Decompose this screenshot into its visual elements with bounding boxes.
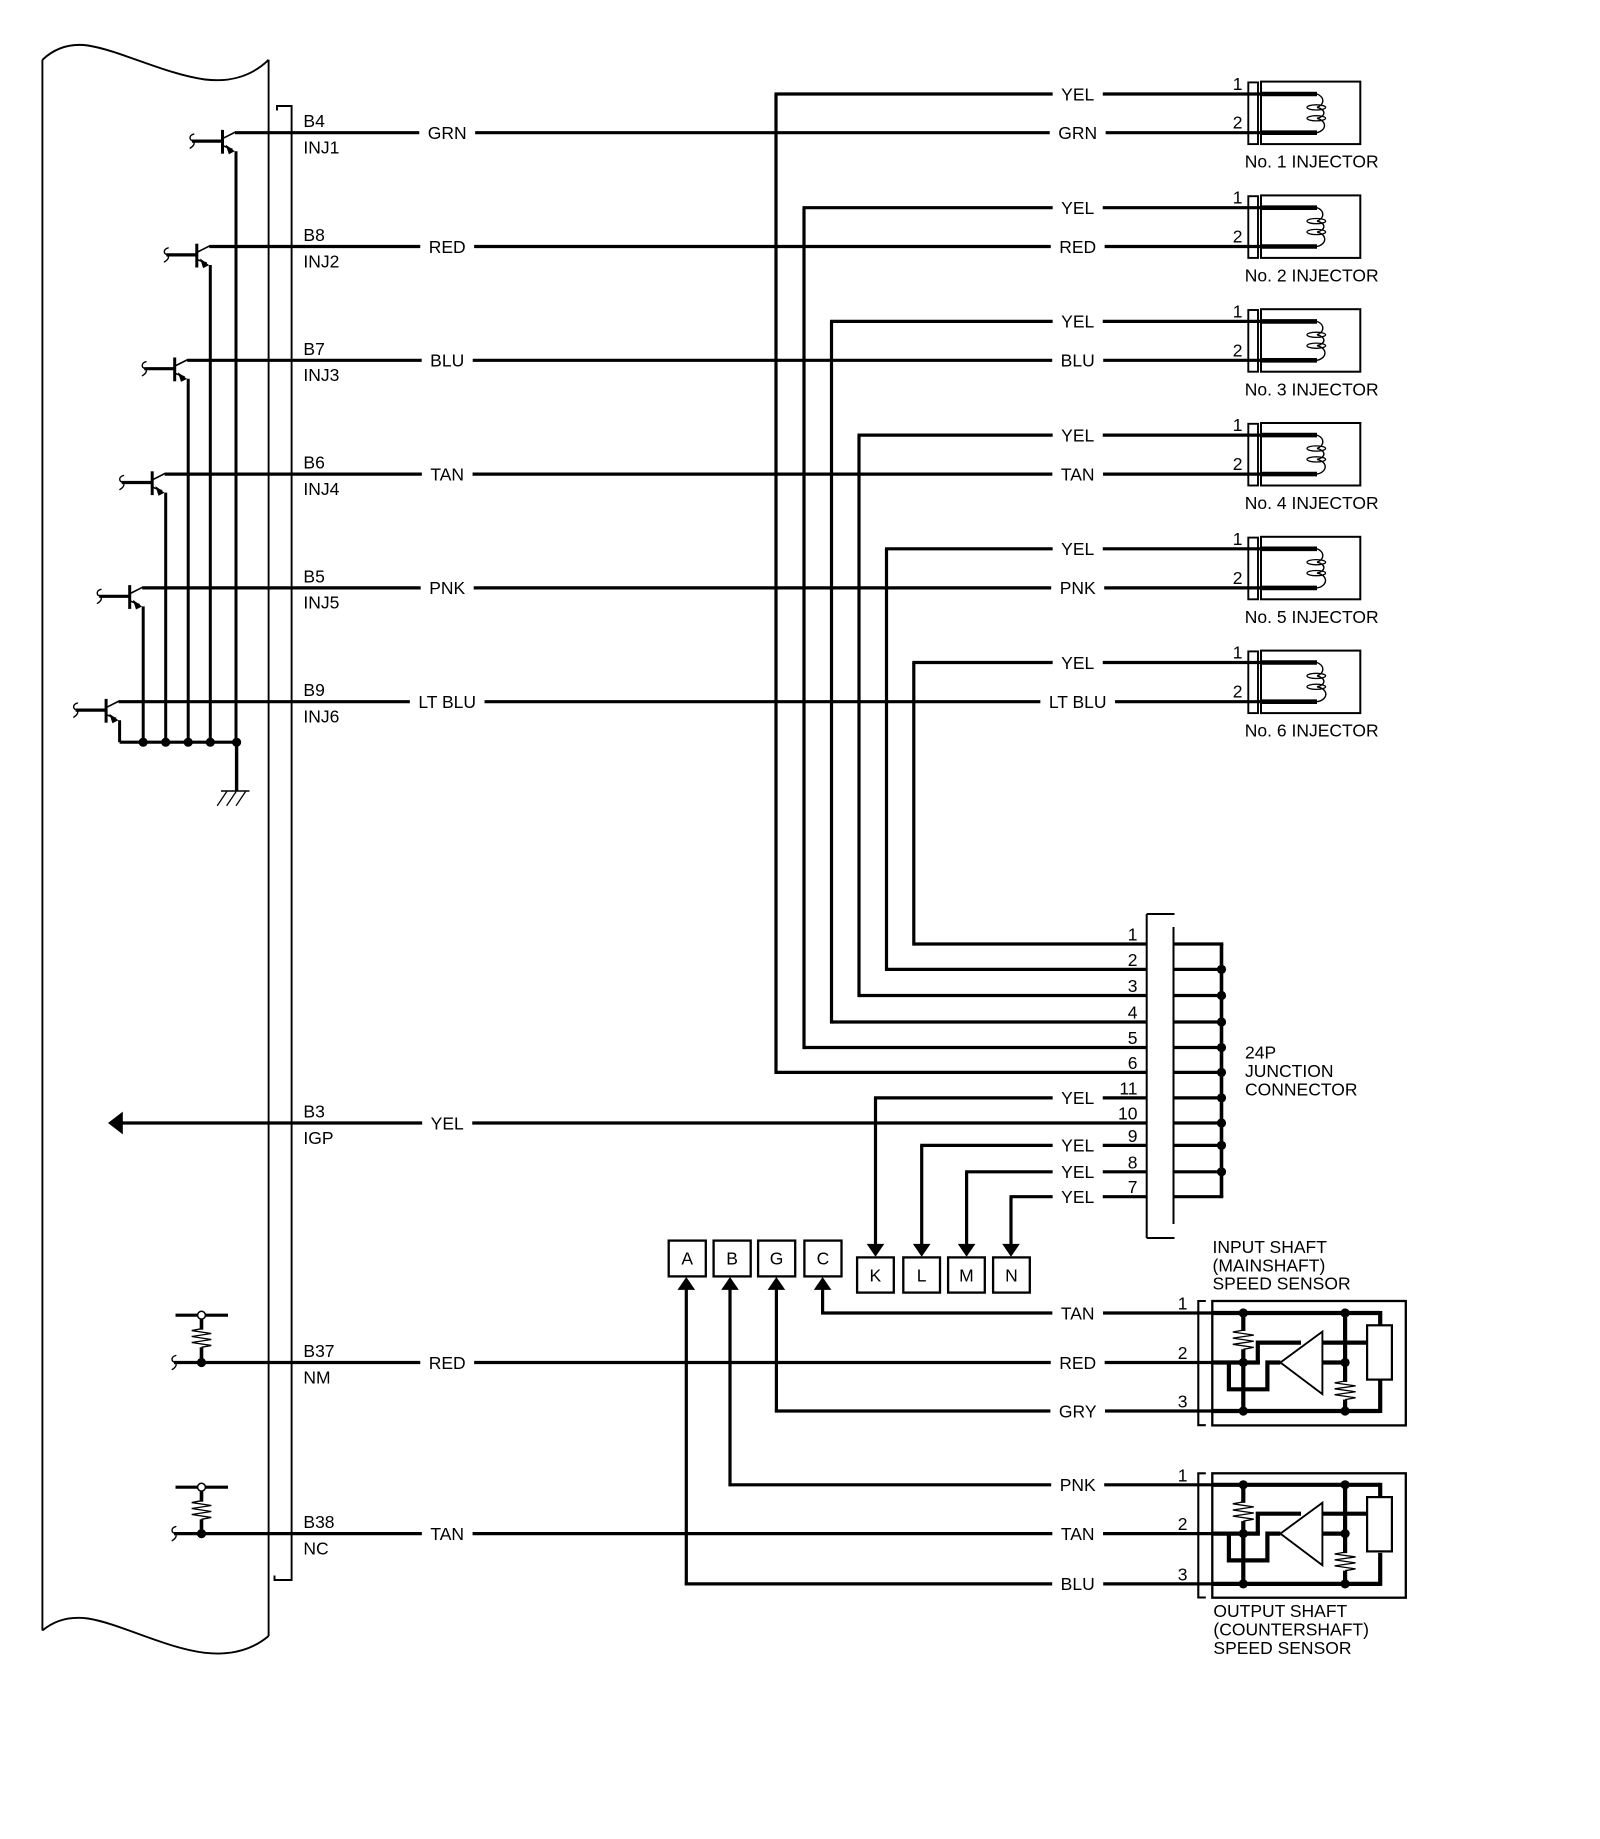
svg-text:YEL: YEL xyxy=(1061,653,1094,673)
wire YEL: junction connector to terminal M xyxy=(965,1172,1147,1245)
arrowhead into terminal B xyxy=(721,1277,739,1290)
output sensor amplifier output wires xyxy=(1322,1514,1367,1534)
svg-text:OUTPUT SHAFT: OUTPUT SHAFT xyxy=(1213,1601,1347,1621)
wire: terminal B lead xyxy=(728,1289,731,1486)
svg-text:1: 1 xyxy=(1178,1294,1188,1314)
svg-text:INJ3: INJ3 xyxy=(303,365,339,385)
wire YEL: No.1 injector pin 1 to junction connector pin 6 xyxy=(775,94,1263,1074)
connector bar of No.3 injector xyxy=(1248,310,1258,372)
svg-text:2: 2 xyxy=(1233,227,1243,247)
svg-text:TAN: TAN xyxy=(1061,1303,1095,1323)
wire YEL: No.6 injector pin 1 to junction connector pin 1 xyxy=(912,663,1262,946)
input sensor amplifier non-inverting input wire xyxy=(1258,1343,1301,1363)
svg-text:M: M xyxy=(959,1265,974,1285)
label OUTPUT SHAFT (COUNTERSHAFT) SPEED SENSOR xyxy=(1213,1601,1369,1658)
wire PNK: terminal to output sensor pin 1 xyxy=(729,1483,1214,1486)
terminal box C xyxy=(804,1241,841,1277)
connector bar of No.4 injector xyxy=(1248,424,1258,486)
svg-text:B6: B6 xyxy=(303,453,324,473)
junction dot on ground bus xyxy=(184,738,193,747)
svg-text:CONNECTOR: CONNECTOR xyxy=(1245,1080,1357,1100)
svg-text:INJ4: INJ4 xyxy=(303,479,339,499)
svg-text:1: 1 xyxy=(1233,643,1243,663)
output sensor junction dot xyxy=(1239,1529,1248,1538)
svg-text:No. 4 INJECTOR: No. 4 INJECTOR xyxy=(1245,493,1379,513)
ground bus (emitters common) xyxy=(120,741,237,744)
svg-text:YEL: YEL xyxy=(1061,1187,1094,1207)
svg-text:3: 3 xyxy=(1178,1564,1188,1584)
svg-text:INJ5: INJ5 xyxy=(303,593,339,613)
arrowhead into terminal N xyxy=(1002,1244,1020,1257)
svg-text:TAN: TAN xyxy=(430,464,464,484)
wire: Q6 emitter to ground bus xyxy=(118,720,121,742)
svg-text:3: 3 xyxy=(1178,1392,1188,1412)
svg-text:YEL: YEL xyxy=(1061,425,1094,445)
pin label B37/NM xyxy=(303,1341,334,1387)
input sensor junction dot xyxy=(1239,1358,1248,1367)
arrowhead into terminal M xyxy=(958,1244,976,1257)
junction dot on ground bus xyxy=(206,738,215,747)
pin numbers 1,2 of No.6 injector xyxy=(1233,643,1243,702)
arrowhead (supply feed, points left inside ECU) xyxy=(108,1112,123,1135)
svg-text:1: 1 xyxy=(1233,301,1243,321)
svg-text:4: 4 xyxy=(1128,1003,1138,1023)
svg-text:B4: B4 xyxy=(303,111,325,131)
output sensor connector bracket xyxy=(1198,1473,1206,1597)
output sensor internal top rail (pin 1) xyxy=(1212,1483,1380,1498)
svg-text:YEL: YEL xyxy=(1061,539,1094,559)
wire: terminal G lead xyxy=(775,1289,778,1413)
connector bar of No.2 injector xyxy=(1248,196,1258,258)
pin label B4/INJ1 xyxy=(303,111,339,157)
svg-text:SPEED SENSOR: SPEED SENSOR xyxy=(1213,1638,1351,1658)
junction dot (pin 11 bus) xyxy=(1217,1093,1226,1102)
svg-text:10: 10 xyxy=(1118,1104,1138,1124)
svg-text:7: 7 xyxy=(1128,1177,1138,1197)
wire: Q5 emitter to ground bus xyxy=(142,606,145,742)
svg-text:C: C xyxy=(817,1249,830,1269)
output sensor junction dot xyxy=(1341,1579,1350,1588)
bus wire joining junction connector outputs xyxy=(1220,944,1224,1197)
output sensor bias resistor R1 xyxy=(1233,1485,1254,1584)
svg-text:B37: B37 xyxy=(303,1341,334,1361)
terminal box L xyxy=(903,1257,940,1292)
wire YEL: junction connector to terminal L xyxy=(920,1145,1146,1244)
wire B4 GRN: ECU to No.1 injector pin 2 xyxy=(235,131,1262,134)
junction dot (pin 5 bus) xyxy=(1217,1043,1226,1052)
junction dot (pin 8 bus) xyxy=(1217,1167,1226,1176)
wire: Q4 emitter to ground bus xyxy=(164,493,167,743)
pin label B8/INJ2 xyxy=(303,225,339,271)
svg-text:B7: B7 xyxy=(303,339,324,359)
input sensor amplifier output wires xyxy=(1322,1343,1367,1363)
svg-text:SPEED SENSOR: SPEED SENSOR xyxy=(1213,1274,1351,1294)
injector L1 (No. 1 INJECTOR) coil in box xyxy=(1261,82,1360,145)
wire YEL: No.5 injector pin 1 to junction connector pin 2 xyxy=(885,549,1262,971)
svg-text:GRY: GRY xyxy=(1059,1401,1097,1421)
wire stub pin 8 (right side) xyxy=(1175,1170,1224,1173)
svg-text:24P: 24P xyxy=(1245,1042,1276,1062)
svg-text:No. 5 INJECTOR: No. 5 INJECTOR xyxy=(1245,607,1379,627)
label 24P JUNCTION CONNECTOR xyxy=(1245,1042,1357,1099)
ECU multi-pin connector strip xyxy=(275,106,292,1580)
pull-up resistor and supply node for B38 (inside ECU) xyxy=(176,1483,229,1533)
svg-text:5: 5 xyxy=(1128,1028,1138,1048)
terminal box M xyxy=(948,1257,985,1292)
svg-text:JUNCTION: JUNCTION xyxy=(1245,1061,1333,1081)
svg-text:YEL: YEL xyxy=(1061,198,1094,218)
svg-text:PNK: PNK xyxy=(1060,578,1096,598)
output sensor junction dot xyxy=(1239,1579,1248,1588)
wire YEL: junction connector to terminal K xyxy=(874,1098,1147,1245)
svg-text:RED: RED xyxy=(1059,1353,1096,1373)
junction dot (B37 sense node) xyxy=(197,1358,206,1367)
svg-text:YEL: YEL xyxy=(1061,1162,1094,1182)
svg-text:6: 6 xyxy=(1128,1053,1138,1073)
input sensor internal top rail (pin 1) xyxy=(1212,1311,1380,1326)
junction dot on ground bus xyxy=(232,738,241,747)
svg-text:(MAINSHAFT): (MAINSHAFT) xyxy=(1213,1255,1326,1275)
wire GRY: terminal to input sensor pin 3 xyxy=(775,1409,1214,1412)
svg-text:PNK: PNK xyxy=(1060,1475,1096,1495)
transistor Q1 (INJ1 injector driver) xyxy=(190,130,235,154)
wire stub pin 7 (right side) xyxy=(1175,1195,1224,1198)
terminal box B xyxy=(714,1241,751,1277)
svg-text:RED: RED xyxy=(1059,237,1096,257)
svg-text:No. 3 INJECTOR: No. 3 INJECTOR xyxy=(1245,379,1379,399)
svg-text:YEL: YEL xyxy=(1061,1088,1094,1108)
output sensor pin-2 input wire with offset jog xyxy=(1212,1534,1280,1561)
wire stub pin 10 (right side) xyxy=(1175,1121,1224,1124)
wire stub pin 11 (right side) xyxy=(1175,1096,1224,1099)
svg-text:B5: B5 xyxy=(303,566,324,586)
svg-text:2: 2 xyxy=(1233,682,1243,702)
pin label B7/INJ3 xyxy=(303,339,339,385)
wire: bus to ground xyxy=(235,742,238,791)
svg-text:INJ1: INJ1 xyxy=(303,138,339,158)
pin label B5/INJ5 xyxy=(303,566,339,612)
output sensor body box xyxy=(1212,1473,1406,1597)
pin numbers 1,2 of No.5 injector xyxy=(1233,529,1243,588)
injector L6 (No. 6 INJECTOR) coil in box xyxy=(1261,651,1360,714)
output sensor junction dot xyxy=(1341,1529,1350,1538)
24P junction connector body xyxy=(1147,914,1175,1238)
junction dot (B38 sense node) xyxy=(197,1529,206,1538)
wire YEL: No.4 injector pin 1 to junction connector pin 3 xyxy=(858,435,1263,997)
svg-text:11: 11 xyxy=(1119,1078,1137,1098)
svg-text:B8: B8 xyxy=(303,225,324,245)
arrowhead into terminal G xyxy=(768,1277,786,1290)
svg-text:2: 2 xyxy=(1178,1343,1188,1363)
junction dot (pin 9 bus) xyxy=(1217,1141,1226,1150)
input sensor junction dot xyxy=(1341,1406,1350,1415)
svg-text:1: 1 xyxy=(1233,415,1243,435)
svg-text:INPUT SHAFT: INPUT SHAFT xyxy=(1213,1237,1328,1257)
input sensor body box xyxy=(1212,1301,1406,1425)
svg-text:TAN: TAN xyxy=(430,1524,464,1544)
transistor Q6 (INJ6 injector driver) xyxy=(74,699,119,723)
svg-text:B3: B3 xyxy=(303,1102,324,1122)
svg-text:B: B xyxy=(726,1249,738,1269)
svg-text:LT BLU: LT BLU xyxy=(418,692,476,712)
svg-text:TAN: TAN xyxy=(1061,464,1095,484)
terminal box A xyxy=(669,1241,706,1277)
input sensor junction dot xyxy=(1341,1358,1350,1367)
pin numbers 1,2 of No.4 injector xyxy=(1233,415,1243,474)
wire stub pin 9 (right side) xyxy=(1175,1144,1224,1147)
output sensor internal bottom rail (pin 3) xyxy=(1212,1553,1380,1586)
input sensor amplifier (comparator) triangle xyxy=(1280,1332,1322,1395)
svg-text:No. 2 INJECTOR: No. 2 INJECTOR xyxy=(1245,266,1379,286)
transistor Q3 (INJ3 injector driver) xyxy=(142,358,187,382)
wire BLU: terminal to output sensor pin 3 xyxy=(685,1582,1214,1585)
pin numbers 1,2 of No.2 injector xyxy=(1233,188,1243,247)
transistor Q4 (INJ4 injector driver) xyxy=(120,471,165,495)
junction dot (pin 2 bus) xyxy=(1217,965,1226,974)
svg-text:NM: NM xyxy=(303,1367,330,1387)
wire stub pin 3 (right side) xyxy=(1175,994,1224,997)
junction dot (pin 3 bus) xyxy=(1217,991,1226,1000)
svg-text:IGP: IGP xyxy=(303,1128,333,1148)
input sensor bias resistor R2 xyxy=(1335,1313,1356,1411)
wire stub pin 4 (right side) xyxy=(1175,1020,1224,1023)
wire B37 RED: ECU to speed sensor pin 2 xyxy=(172,1356,1213,1370)
input sensor junction dot xyxy=(1341,1308,1350,1317)
connector bar of No.1 injector xyxy=(1248,82,1258,144)
svg-text:1: 1 xyxy=(1178,1465,1188,1485)
svg-text:2: 2 xyxy=(1233,454,1243,474)
wire stub pin 1 (right side) xyxy=(1175,942,1224,945)
input sensor pin-2 input wire with offset jog xyxy=(1212,1363,1280,1390)
pin numbers 1,2 of No.1 injector xyxy=(1233,74,1243,133)
junction dot (pin 10 bus) xyxy=(1217,1118,1226,1127)
injector L4 (No. 4 INJECTOR) coil in box xyxy=(1261,423,1360,486)
svg-text:YEL: YEL xyxy=(1061,84,1094,104)
pin label B6/INJ4 xyxy=(303,453,339,499)
svg-text:N: N xyxy=(1005,1265,1018,1285)
svg-text:PNK: PNK xyxy=(429,578,465,598)
terminal box N xyxy=(993,1257,1030,1292)
svg-text:1: 1 xyxy=(1233,188,1243,208)
svg-text:B9: B9 xyxy=(303,680,324,700)
junction dot on ground bus xyxy=(139,738,148,747)
input sensor junction dot xyxy=(1239,1308,1248,1317)
connector bar of No.5 injector xyxy=(1248,538,1258,600)
wire: Q2 emitter to ground bus xyxy=(209,265,212,742)
pull-up resistor and supply node for B37 (inside ECU) xyxy=(176,1311,229,1362)
output sensor amplifier non-inverting input wire xyxy=(1258,1514,1301,1534)
svg-text:8: 8 xyxy=(1128,1152,1138,1172)
svg-text:1: 1 xyxy=(1233,529,1243,549)
svg-text:YEL: YEL xyxy=(1061,1136,1094,1156)
arrowhead into terminal K xyxy=(867,1244,885,1257)
label INPUT SHAFT (MAINSHAFT) SPEED SENSOR xyxy=(1213,1237,1351,1294)
input sensor bias resistor R1 xyxy=(1233,1313,1254,1411)
pin numbers 1,2 of No.3 injector xyxy=(1233,301,1243,360)
wire YEL: No.3 injector pin 1 to junction connector pin 4 xyxy=(830,321,1262,1023)
transistor Q2 (INJ2 injector driver) xyxy=(164,244,209,268)
wire: Q1 emitter to ground bus xyxy=(235,151,238,742)
input sensor pickup coil load (rect) xyxy=(1367,1325,1392,1379)
pin label B3/IGP xyxy=(303,1102,333,1148)
svg-text:RED: RED xyxy=(429,237,466,257)
svg-text:BLU: BLU xyxy=(1061,351,1095,371)
wire: Q3 emitter to ground bus xyxy=(187,379,190,742)
transistor Q5 (INJ5 injector driver) xyxy=(97,585,142,609)
svg-text:2: 2 xyxy=(1233,113,1243,133)
terminal box G xyxy=(758,1241,795,1277)
pin label B38/NC xyxy=(303,1512,334,1558)
svg-text:TAN: TAN xyxy=(1061,1524,1095,1544)
junction dot on ground bus xyxy=(161,738,170,747)
input sensor connector bracket xyxy=(1198,1301,1206,1425)
injector L2 (No. 2 INJECTOR) coil in box xyxy=(1261,195,1360,258)
wire stub pin 2 (right side) xyxy=(1175,968,1224,971)
svg-text:No. 6 INJECTOR: No. 6 INJECTOR xyxy=(1245,721,1379,741)
svg-text:No. 1 INJECTOR: No. 1 INJECTOR xyxy=(1245,152,1379,172)
output sensor pickup coil load (rect) xyxy=(1367,1497,1392,1551)
wire B38 TAN: ECU to speed sensor pin 2 xyxy=(172,1527,1213,1541)
wire TAN: terminal to input sensor pin 1 xyxy=(821,1311,1213,1314)
svg-text:LT BLU: LT BLU xyxy=(1049,692,1107,712)
wire stub pin 6 (right side) xyxy=(1175,1071,1224,1074)
svg-text:3: 3 xyxy=(1128,976,1138,996)
svg-text:2: 2 xyxy=(1233,568,1243,588)
svg-text:G: G xyxy=(770,1249,784,1269)
svg-text:A: A xyxy=(681,1249,693,1269)
wire stub pin 5 (right side) xyxy=(1175,1046,1224,1049)
ground (chassis) symbol xyxy=(217,791,249,806)
output sensor junction dot xyxy=(1341,1480,1350,1489)
pin label B9/INJ6 xyxy=(303,680,339,726)
junction dot (pin 4 bus) xyxy=(1217,1017,1226,1026)
svg-text:2: 2 xyxy=(1178,1514,1188,1534)
svg-text:(COUNTERSHAFT): (COUNTERSHAFT) xyxy=(1213,1620,1369,1640)
svg-text:1: 1 xyxy=(1233,74,1243,94)
wire YEL: No.2 injector pin 1 to junction connector pin 5 xyxy=(803,208,1263,1049)
svg-text:YEL: YEL xyxy=(431,1113,464,1133)
svg-text:1: 1 xyxy=(1128,925,1138,945)
arrowhead into terminal C xyxy=(814,1277,832,1290)
wire: terminal C lead xyxy=(821,1289,824,1315)
svg-text:L: L xyxy=(917,1265,927,1285)
input sensor junction dot xyxy=(1239,1406,1248,1415)
svg-text:INJ2: INJ2 xyxy=(303,251,339,271)
terminal box K xyxy=(857,1257,894,1292)
svg-text:GRN: GRN xyxy=(428,123,467,143)
svg-text:BLU: BLU xyxy=(430,351,464,371)
input sensor pin numbers 1,2,3 xyxy=(1178,1294,1188,1412)
wire B3 YEL: junction connector pin 10 to ECU internal feed xyxy=(122,1121,1147,1124)
svg-text:B38: B38 xyxy=(303,1512,334,1532)
wire B9 LT BLU: ECU to No.6 injector pin 2 xyxy=(119,700,1262,703)
wire B5 PNK: ECU to No.5 injector pin 2 xyxy=(142,586,1262,589)
svg-text:9: 9 xyxy=(1128,1126,1138,1146)
arrowhead into terminal L xyxy=(913,1244,931,1257)
svg-text:GRN: GRN xyxy=(1058,123,1097,143)
wire B6 TAN: ECU to No.4 injector pin 2 xyxy=(165,473,1262,476)
injector L3 (No. 3 INJECTOR) coil in box xyxy=(1261,309,1360,372)
output sensor bias resistor R2 xyxy=(1335,1485,1356,1584)
wire B7 BLU: ECU to No.3 injector pin 2 xyxy=(187,359,1262,362)
svg-text:K: K xyxy=(870,1265,882,1285)
output sensor amplifier (comparator) triangle xyxy=(1280,1503,1322,1566)
svg-text:2: 2 xyxy=(1128,950,1138,970)
svg-text:BLU: BLU xyxy=(1061,1574,1095,1594)
svg-text:YEL: YEL xyxy=(1061,312,1094,332)
wire YEL: junction connector to terminal N xyxy=(1010,1197,1147,1245)
svg-text:NC: NC xyxy=(303,1538,328,1558)
wire: terminal A lead xyxy=(685,1289,688,1585)
wire B8 RED: ECU to No.2 injector pin 2 xyxy=(209,245,1262,248)
injector L5 (No. 5 INJECTOR) coil in box xyxy=(1261,537,1360,600)
output sensor junction dot xyxy=(1239,1480,1248,1489)
svg-text:RED: RED xyxy=(429,1353,466,1373)
output sensor pin numbers 1,2,3 xyxy=(1178,1465,1188,1584)
svg-text:INJ6: INJ6 xyxy=(303,707,339,727)
connector bar of No.6 injector xyxy=(1248,651,1258,713)
ECU / PCM block outline (torn-edge box) xyxy=(42,45,268,1654)
input sensor internal bottom rail (pin 3) xyxy=(1212,1380,1380,1413)
junction dot (pin 6 bus) xyxy=(1217,1068,1226,1077)
arrowhead into terminal A xyxy=(678,1277,696,1290)
svg-text:2: 2 xyxy=(1233,340,1243,360)
